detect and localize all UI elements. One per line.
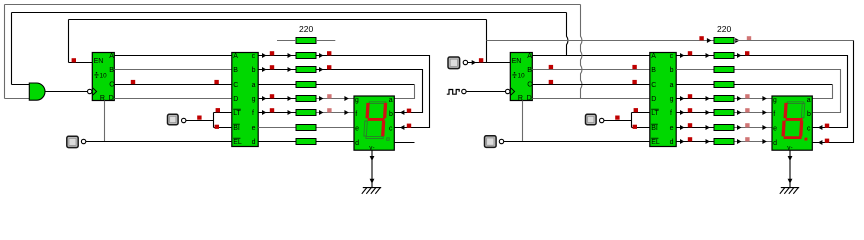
- current arrow on EN2 wire: [472, 60, 476, 65]
- wire: R1 left lead open end: [277, 40, 296, 42]
- wire: stub to decoder U5 LT input: [632, 112, 650, 114]
- wire: segment f1 decoder to resistor: [258, 112, 296, 114]
- svg-text:10: 10: [100, 73, 108, 80]
- display DS2 digit segments: [781, 102, 809, 141]
- svg-text:d: d: [670, 139, 674, 146]
- wire: segment e1 decoder to display pin e: [258, 127, 354, 129]
- switch S2 contact circle: [182, 118, 186, 122]
- current arrows and markers on segment b1 net: [262, 65, 411, 115]
- red marker: C1 at counter output: [131, 80, 135, 84]
- svg-text:d: d: [773, 140, 777, 147]
- wire: switch S3 to counter U4 EN: [468, 62, 511, 64]
- resistor R4 segment a1: [296, 82, 316, 88]
- svg-text:f: f: [355, 111, 357, 118]
- svg-text:D: D: [527, 95, 532, 102]
- svg-text:c: c: [389, 126, 393, 133]
- display DS2 pin labels: [773, 97, 811, 151]
- wire: DS1 decimal point stub open: [394, 142, 414, 144]
- resistor R13 segment g2: [714, 96, 734, 102]
- current arrows on ground wire 1: [370, 156, 375, 184]
- svg-text:b: b: [389, 111, 393, 118]
- counter U4 divide-by-10 body: [510, 53, 532, 101]
- clock source contact circle: [462, 89, 466, 93]
- clock inverter bubble at U4: [506, 89, 510, 93]
- svg-text:g: g: [773, 97, 777, 104]
- red marker: C2 at decoder input: [632, 80, 636, 84]
- svg-text:f: f: [252, 110, 254, 117]
- svg-text:e: e: [252, 125, 256, 132]
- wire: switch S1 to decoder U2 EL input: [86, 141, 232, 143]
- resistor R14 segment f2: [714, 110, 734, 116]
- wire: 220 net 2 from EN junction to resistor R9: [487, 40, 715, 42]
- svg-text:g: g: [670, 96, 674, 103]
- wire: row B1 counter to decoder: [114, 69, 232, 71]
- wire: segment b1 net decoder loop to display pin b: [258, 70, 422, 113]
- red marker: C2 at counter output: [549, 80, 553, 84]
- current arrows and markers on segment d2 net: [680, 137, 767, 144]
- wire: segment d2 decoder to resistor: [676, 141, 714, 143]
- svg-text:D: D: [651, 96, 656, 103]
- wire: row C1 counter to decoder: [114, 84, 232, 86]
- wire: segment a2 return into display pin a: [812, 85, 832, 99]
- svg-text:220: 220: [299, 24, 313, 34]
- svg-text:C: C: [233, 82, 238, 89]
- push switch S4 (counter 2 reset / EL): [485, 136, 497, 148]
- clock source CLK square wave symbol: [447, 90, 459, 95]
- switch S5 contact circle: [600, 118, 604, 122]
- counter U4 labels: [512, 53, 533, 102]
- svg-text:b: b: [252, 67, 256, 74]
- current arrows and markers on segment f1 net: [262, 108, 349, 115]
- resistor R9 220 ohm (decimal point 2): [714, 38, 734, 44]
- svg-text:A: A: [109, 53, 114, 60]
- svg-text:b: b: [807, 111, 811, 118]
- clock inverter bubble at U1: [88, 89, 92, 93]
- wire: row D2 counter to decoder: [532, 98, 650, 100]
- wire: LT/BI vertical junction bar: [213, 113, 215, 128]
- wire: row B2 counter to decoder: [532, 69, 650, 71]
- svg-text:B: B: [109, 67, 114, 74]
- red marker: B2 at counter output: [549, 65, 553, 69]
- wire: R9 lead to loop corner: [734, 40, 854, 42]
- resistor R16 segment d2: [714, 139, 734, 145]
- counter U1 divide-by-10 body: [92, 53, 114, 101]
- resistor R12 segment a2: [714, 82, 734, 88]
- svg-text:220: 220: [717, 24, 731, 34]
- display DS1 digit segments: [364, 102, 392, 141]
- resistor R15 segment e2: [714, 125, 734, 131]
- red marker: at BI2 input: [633, 125, 637, 129]
- svg-text:EL: EL: [233, 139, 242, 146]
- svg-text:e: e: [773, 126, 777, 133]
- svg-text:D: D: [109, 95, 114, 102]
- svg-text:BI: BI: [233, 125, 240, 132]
- push switch S5 (lamp test 2): [586, 114, 597, 125]
- resistor R2 segment c1: [296, 53, 316, 59]
- wire: gray feedback net top horizontal (D2 to AND input B): [5, 4, 581, 6]
- resistor R11 segment b2: [714, 67, 734, 73]
- wire: counter U4 reset pin down to reset net: [522, 101, 524, 142]
- svg-text:A: A: [651, 53, 656, 60]
- decoder U5 output labels: [670, 53, 674, 146]
- display DS1 pin labels: [355, 97, 393, 151]
- current arrows and markers on segment g2 net: [680, 94, 767, 101]
- push switch S2 (lamp test): [168, 114, 179, 125]
- wire: row A1 counter to decoder: [114, 55, 232, 57]
- current arrows and markers on segment e2 net: [680, 123, 767, 130]
- wire: black feedback net left vertical: [11, 13, 13, 85]
- svg-text:c: c: [670, 53, 674, 60]
- current arrows and markers on segment g1 net: [262, 94, 349, 101]
- push switch S3 (EN2): [448, 57, 460, 69]
- wire: segment g1 decoder to resistor: [258, 98, 296, 100]
- ground symbol GND2: [780, 188, 799, 194]
- resistor R3 segment b1: [296, 67, 316, 73]
- svg-text:a: a: [252, 82, 256, 89]
- wire: segment f1 resistor to display pin f: [316, 112, 354, 114]
- wire: DS1 common cathode to ground: [371, 150, 373, 187]
- svg-text:c: c: [807, 126, 811, 133]
- svg-text:B: B: [651, 67, 656, 74]
- wire: segment a2 net decoder to loop corner: [676, 84, 832, 86]
- 7-segment display DS1 body: [354, 96, 394, 150]
- red marker: on S5 wire: [615, 116, 619, 120]
- decoder U2 output labels: [252, 53, 256, 146]
- switch S4 contact circle: [499, 139, 503, 143]
- wire: switch S2 to LT/BI junction bar: [186, 120, 214, 122]
- resistor R5 segment g1: [296, 96, 316, 102]
- current arrows and markers on segment f2 net: [680, 108, 767, 115]
- resistor R1 220 ohm floating (decimal point 1): [296, 38, 316, 44]
- svg-text:d: d: [355, 140, 359, 147]
- wire: black feedback net right vertical joining row A2: [567, 13, 569, 56]
- svg-text:a: a: [389, 97, 393, 104]
- wire: DS2 common cathode to ground: [789, 150, 791, 187]
- wire: segment e2 resistor to display pin e: [734, 127, 772, 129]
- wire: segment c2 net decoder loop to display pin c: [676, 56, 847, 128]
- wire: segment b2 net decoder loop to display pin b (off): [676, 70, 840, 113]
- current arrows and markers on segment c2 net: [680, 51, 829, 130]
- wire: counter U1 reset pin down to reset net: [104, 101, 106, 142]
- wire: segment a1 return into display pin a: [394, 85, 414, 99]
- wire: gray feedback net into AND gate lower input: [5, 98, 30, 100]
- svg-text:EN: EN: [94, 58, 104, 65]
- svg-text:A: A: [527, 53, 532, 60]
- wire: LT/BI vertical junction bar 2: [631, 113, 633, 128]
- wire: segment c1 net decoder loop to display pin c: [258, 56, 429, 128]
- wire: EN net right vertical down to EN2 junction: [486, 20, 488, 63]
- wire: segment e2 decoder to resistor: [676, 127, 714, 129]
- resistor R7 segment e1: [296, 125, 316, 131]
- decoder U2 (BCD to 7-segment) body: [232, 53, 258, 147]
- svg-text:D: D: [233, 96, 238, 103]
- svg-text:a: a: [670, 82, 674, 89]
- wire: segment g2 decoder to resistor: [676, 98, 714, 100]
- svg-text:C: C: [651, 82, 656, 89]
- current arrows and markers on 220 net 2: [699, 36, 751, 43]
- red marker: at LT2 input: [634, 108, 638, 112]
- red marker: EN1 high: [72, 58, 76, 62]
- svg-text:f: f: [670, 110, 672, 117]
- wire: black feedback net top horizontal (A2 to AND input A): [12, 12, 567, 14]
- current arrow and marker at DS2 decimal point pin: [818, 139, 829, 145]
- wire: switch S5 to LT/BI junction bar 2: [604, 120, 632, 122]
- AND gate U3: [29, 83, 45, 100]
- red marker: B2 at decoder input: [632, 65, 636, 69]
- counter U1 clock edge triangle: [93, 88, 97, 95]
- current arrows on ground wire 2: [788, 156, 793, 184]
- svg-text:a: a: [807, 97, 811, 104]
- wire: clock source to counter U4 clock: [466, 91, 505, 93]
- wire: EN net left vertical: [68, 20, 70, 63]
- red marker: at BI input: [215, 125, 219, 129]
- svg-text:C: C: [527, 81, 532, 88]
- svg-text:EL: EL: [651, 139, 660, 146]
- svg-text:e: e: [670, 125, 674, 132]
- svg-text:g: g: [355, 97, 359, 104]
- red marker: on S2 wire: [197, 116, 201, 120]
- current arrows and markers on segment c1 net: [262, 51, 411, 130]
- decoder U5 (BCD to 7-segment) body: [650, 53, 676, 147]
- svg-text:b: b: [670, 67, 674, 74]
- red marker: C1 at decoder input: [214, 80, 218, 84]
- svg-text:e: e: [355, 126, 359, 133]
- svg-text:LT: LT: [651, 110, 659, 117]
- counter U1 labels: [94, 53, 115, 102]
- svg-text:c: c: [252, 53, 256, 60]
- ground symbol GND1: [362, 188, 381, 194]
- svg-text:A: A: [233, 53, 238, 60]
- wire: switch S4 to decoder U5 EL input: [504, 141, 650, 143]
- wire: stub to decoder U2 LT input: [214, 112, 232, 114]
- resistor R8 segment d1: [296, 139, 316, 145]
- resistor R6 segment f1: [296, 110, 316, 116]
- wire: gray feedback net left vertical: [4, 5, 6, 99]
- wire: AND gate output to counter U1 clock: [45, 91, 88, 93]
- wire: segment g1 resistor to display pin g: [316, 98, 354, 100]
- red marker: EN2 high: [479, 58, 483, 62]
- red marker: at LT input: [216, 108, 220, 112]
- decoder U5 input labels: [651, 53, 660, 146]
- wire: EN net top horizontal (EN1 tied to EN2): [69, 19, 487, 21]
- wire: row D1 counter to decoder: [114, 98, 232, 100]
- svg-text:f: f: [773, 111, 775, 118]
- decoder U2 input labels: [233, 53, 242, 146]
- wire: segment d1 decoder to display pin d: [258, 141, 354, 143]
- wire: row C2 counter to decoder: [532, 84, 650, 86]
- wire: stub to decoder U5 BI input: [632, 127, 650, 129]
- push switch S1 (counter reset / EL): [67, 136, 78, 147]
- svg-text:EN: EN: [512, 58, 522, 65]
- svg-text:C: C: [109, 81, 114, 88]
- wire: segment f2 resistor to display pin f: [734, 112, 772, 114]
- wire: segment d2 resistor to display pin d: [734, 141, 772, 143]
- svg-text:d: d: [252, 139, 256, 146]
- counter U4 clock edge triangle: [511, 88, 515, 95]
- svg-text:10: 10: [518, 73, 526, 80]
- wire: segment a1 net decoder to loop corner: [258, 84, 414, 86]
- wire: black feedback net into AND gate upper input: [12, 84, 30, 86]
- svg-text:B: B: [233, 67, 238, 74]
- switch S3 contact circle: [463, 60, 467, 64]
- 7-segment display DS2 body: [772, 96, 812, 150]
- svg-text:LT: LT: [233, 110, 241, 117]
- wire: stub to decoder U2 BI input: [214, 127, 232, 129]
- wire: segment f2 decoder to resistor: [676, 112, 714, 114]
- switch S1 contact circle: [81, 139, 85, 143]
- svg-text:B: B: [527, 67, 532, 74]
- wire: row A2 counter to decoder: [532, 55, 650, 57]
- resistor R10 segment c2: [714, 53, 734, 59]
- wire: gray feedback net right vertical joining row D2 (hops rows): [581, 5, 583, 99]
- wire: segment g2 resistor to display pin g: [734, 98, 772, 100]
- wire: decimal point 2 loop down into DS2 dp pin: [812, 41, 853, 143]
- svg-text:BI: BI: [651, 125, 658, 132]
- svg-text:g: g: [252, 96, 256, 103]
- wire: R1 right lead open end: [316, 40, 335, 42]
- wire: EN1 into counter U1: [69, 62, 93, 64]
